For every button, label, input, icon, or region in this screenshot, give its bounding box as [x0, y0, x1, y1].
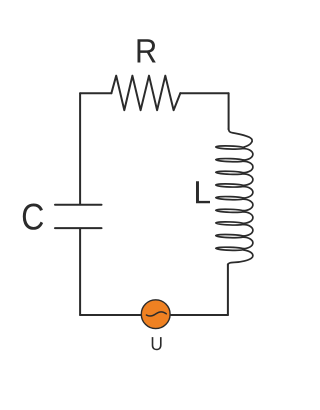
wire bottom left	[80, 314, 141, 316]
inductor L turn 6	[216, 209, 245, 213]
resistor R	[111, 76, 180, 111]
wire left vertical lower	[79, 229, 81, 315]
wire right vertical upper	[228, 93, 230, 129]
inductor L connector 5	[243, 199, 253, 210]
inductor L connector 1	[243, 149, 253, 160]
label C	[23, 203, 43, 229]
wire bottom right	[171, 314, 228, 316]
inductor L connector 8	[243, 237, 253, 248]
capacitor C bottom plate	[55, 227, 102, 229]
inductor L connector 6	[243, 212, 253, 223]
inductor L connector 2	[243, 161, 253, 172]
label L	[196, 181, 210, 203]
inductor L turn 9	[216, 247, 245, 251]
wire left vertical upper	[79, 93, 81, 204]
inductor L coil top lead	[229, 128, 253, 147]
inductor L connector 3	[243, 174, 253, 185]
inductor L turn 7	[216, 221, 245, 225]
inductor L turn 1	[216, 146, 245, 150]
inductor L connector 7	[243, 225, 253, 236]
wire top-left horizontal	[80, 92, 111, 94]
label R	[138, 39, 156, 62]
inductor L turn 4	[216, 183, 245, 187]
label U	[152, 337, 162, 350]
wire right vertical lower	[227, 264, 229, 315]
inductor L turn 5	[216, 196, 245, 200]
inductor L connector 4	[243, 187, 253, 198]
inductor L turn 8	[216, 234, 245, 238]
inductor L turn 3	[216, 171, 245, 175]
wire top-right horizontal	[180, 92, 228, 94]
capacitor C top plate	[55, 204, 102, 206]
voltage source U sine wave	[146, 312, 166, 316]
inductor L coil bottom lead	[228, 250, 253, 265]
inductor L turn 2	[216, 158, 245, 162]
voltage source U circle	[141, 300, 170, 329]
